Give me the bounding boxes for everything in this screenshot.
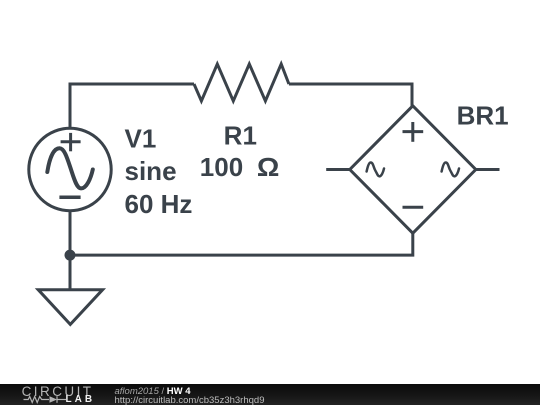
bridge rectifier BR1 diamond body (350, 106, 476, 233)
wire V1 bottom to ground (69, 210, 72, 289)
BR1 left ac tilde (367, 162, 384, 176)
svg-text:100: 100 (200, 152, 243, 182)
V1 plus sign (61, 133, 81, 151)
svg-text:60 Hz: 60 Hz (125, 189, 193, 219)
logo resistor-diode squiggle (22, 395, 72, 405)
BR1 right terminal stub (476, 168, 500, 171)
ground symbol (38, 290, 102, 325)
svg-text:sine: sine (125, 156, 177, 186)
svg-text:R1: R1 (224, 121, 257, 151)
BR1 left terminal stub (326, 168, 350, 171)
footer title text (115, 387, 191, 397)
V1 minus sign (59, 196, 80, 200)
wire top-left from V1 top up and right to R1 (70, 84, 194, 129)
voltage source V1 circle (29, 128, 111, 210)
BR1 plus terminal mark (403, 122, 424, 142)
wire from R1 right to bridge top (289, 84, 412, 107)
V1 sine wave (47, 148, 93, 188)
BR1 minus terminal mark (403, 206, 424, 209)
footer bar (0, 384, 540, 405)
svg-text:Ω: Ω (257, 153, 280, 182)
footer url text (115, 396, 265, 406)
resistor R1 (194, 64, 289, 101)
CircuitLab logo wordmark CIRCUIT (22, 385, 94, 399)
svg-text:BR1: BR1 (457, 101, 509, 131)
CircuitLab logo wordmark LAB (66, 395, 96, 405)
wire bridge bottom to node (70, 233, 413, 255)
BR1 right ac tilde (442, 162, 459, 176)
svg-text:V1: V1 (125, 124, 157, 154)
node junction dot (65, 250, 76, 261)
